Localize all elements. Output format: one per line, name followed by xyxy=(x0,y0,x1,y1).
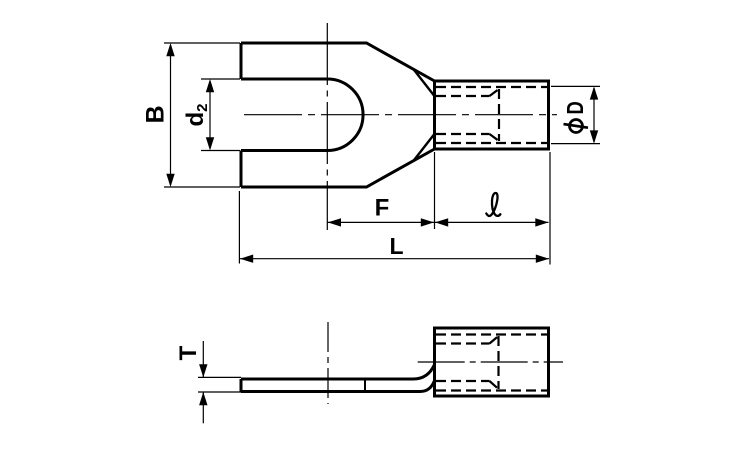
label phi-D xyxy=(564,120,589,133)
extension line barrel-left xyxy=(434,152,436,229)
tongue side view xyxy=(241,328,549,396)
wire bore bottom xyxy=(436,133,490,135)
neck flare lower xyxy=(414,135,435,161)
dimension B xyxy=(164,43,240,187)
wire bore top xyxy=(436,95,490,97)
bore cone xyxy=(490,89,500,141)
neck flare upper xyxy=(414,69,435,95)
outer bore bottom xyxy=(436,142,548,144)
barrel outline (side view) xyxy=(435,328,549,396)
wire bore top xyxy=(436,342,490,344)
svg-text:T: T xyxy=(175,345,202,360)
centerline vertical (top view) xyxy=(326,23,328,230)
svg-text:F: F xyxy=(375,195,390,222)
dimension phi-D xyxy=(551,86,600,143)
wire bore bottom xyxy=(436,380,490,382)
dimension F xyxy=(327,221,434,223)
dimension L xyxy=(240,258,549,260)
barrel outline (top view) xyxy=(435,81,549,149)
label ell xyxy=(486,193,500,216)
slot end edge (side view) xyxy=(364,381,366,391)
outer bore top xyxy=(436,333,548,335)
bore cone xyxy=(490,336,499,389)
dimension ell xyxy=(435,221,549,223)
extension line barrel-right xyxy=(549,152,551,265)
svg-text:L: L xyxy=(389,233,403,259)
dimension d2 xyxy=(201,79,240,151)
fork outline (tongue top view) xyxy=(241,43,549,187)
dimension T xyxy=(198,341,241,423)
svg-text:B: B xyxy=(142,105,170,123)
outer bore bottom xyxy=(436,389,548,391)
outer bore top xyxy=(436,86,548,88)
extension line fork-left xyxy=(238,191,240,264)
centerline horizontal (top view) xyxy=(244,114,557,116)
centerline horizontal (side view) xyxy=(418,361,563,363)
hidden lines: barrel bore (top view) xyxy=(436,87,548,143)
hidden lines: barrel bore (side view) xyxy=(436,335,548,391)
centerline vertical (side view) xyxy=(327,322,329,404)
svg-text:D: D xyxy=(563,101,588,114)
